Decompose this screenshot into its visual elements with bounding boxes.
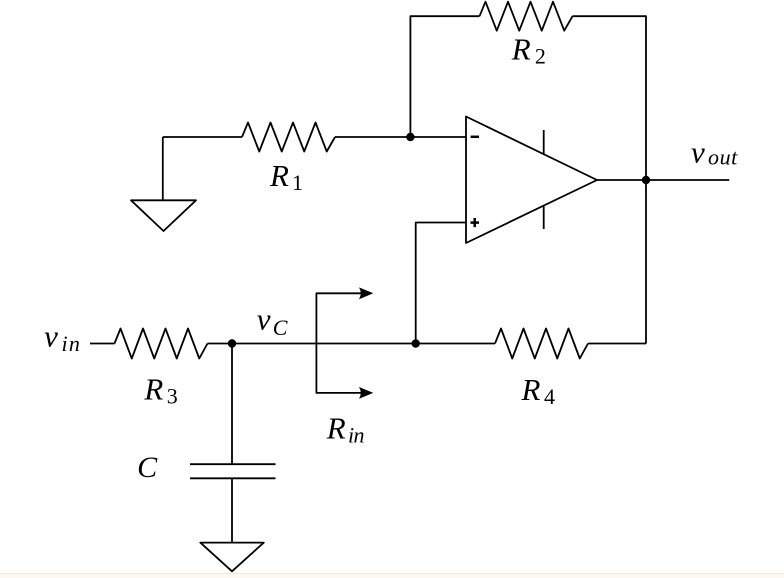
svg-text:R: R xyxy=(326,411,346,446)
svg-text:v: v xyxy=(257,302,271,337)
svg-text:in: in xyxy=(62,331,80,356)
svg-text:R: R xyxy=(269,158,289,193)
svg-text:3: 3 xyxy=(167,384,178,409)
svg-text:1: 1 xyxy=(292,170,303,195)
svg-text:in: in xyxy=(348,423,365,448)
svg-text:v: v xyxy=(44,319,58,354)
svg-text:2: 2 xyxy=(535,44,546,69)
svg-text:v: v xyxy=(691,134,705,169)
svg-text:R: R xyxy=(521,372,541,407)
svg-text:C: C xyxy=(273,315,288,340)
svg-text:4: 4 xyxy=(544,384,555,409)
svg-text:out: out xyxy=(708,145,738,170)
svg-text:R: R xyxy=(143,372,163,407)
svg-text:R: R xyxy=(511,31,531,66)
svg-text:C: C xyxy=(137,451,158,484)
